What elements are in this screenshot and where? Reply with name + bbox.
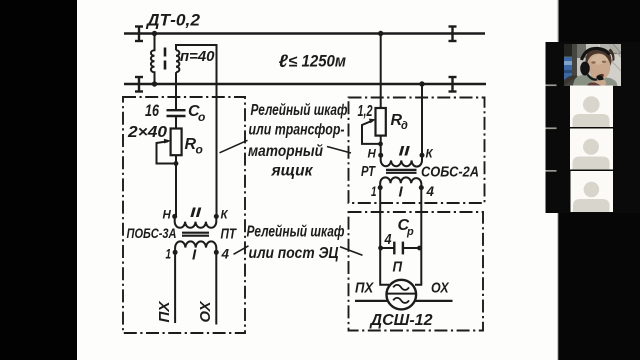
wire Rd bottom to H terminal: [380, 136, 382, 156]
motor relay DSSh-12 circle: [387, 280, 417, 310]
svg-text:ДТ-0,2: ДТ-0,2: [145, 11, 201, 30]
svg-text:о: о: [196, 143, 203, 157]
svg-text:1250м: 1250м: [302, 52, 347, 71]
wire motor to ОХ feeder: [416, 300, 453, 302]
svg-text:П: П: [393, 260, 403, 276]
node terminal 4 (RT): [419, 185, 424, 190]
transformer DT-0,2 core: [164, 48, 167, 70]
leader line to ПТ transformer: [234, 246, 249, 255]
transformer DT-0,2 primary winding: [151, 34, 155, 85]
svg-text:4: 4: [384, 231, 392, 248]
wire ОХ feeder (right): [215, 252, 217, 324]
node: Ro tap junction: [174, 161, 179, 166]
participant video (person with headset): [563, 44, 621, 86]
svg-text:ОХ: ОХ: [431, 279, 449, 296]
insulated joint (rail 1 right): [449, 27, 457, 42]
transformer SOBS-2A core: [386, 170, 417, 173]
svg-text:ПОБС-3А: ПОБС-3А: [127, 225, 177, 241]
annotation: Релейный шкаф или трансформаторный ящик: [248, 102, 348, 180]
node H (RT): [378, 153, 383, 158]
svg-text:ДСШ-12: ДСШ-12: [368, 312, 432, 329]
capacitor Cp: [394, 242, 403, 255]
node: rail 1 junction at DT primary: [152, 31, 157, 36]
node: rail 1 junction at Rd feeder: [378, 31, 383, 36]
participants panel background: [546, 42, 640, 213]
node: Cp left junction: [378, 246, 383, 251]
node terminal 1 (POBS): [173, 250, 178, 255]
svg-text:К: К: [221, 210, 229, 222]
wire Cp left: [381, 247, 395, 249]
wire RT terminal 4 down to motor: [415, 188, 421, 285]
relay cabinet box (right lower, dash-dot): [349, 212, 484, 331]
leader line to right box: [327, 147, 351, 154]
insulated joint (rail 1 left): [135, 27, 143, 42]
capacitor Co: [167, 110, 186, 116]
resistor Ro: [171, 129, 182, 156]
right sidebar background: [558, 0, 640, 360]
rail 2 (lower rail line): [124, 83, 486, 86]
wire RT terminal 1 down to motor: [380, 188, 389, 285]
svg-text:или трансфор-: или трансфор-: [249, 122, 345, 139]
annotation: Релейный шкаф или пост ЭЦ: [247, 223, 345, 262]
svg-text:маторный: маторный: [248, 143, 323, 160]
svg-text:≤: ≤: [289, 54, 298, 71]
Ro adjustment tap wire with arrow: [157, 141, 177, 163]
node: rail 2 junction at DT primary: [152, 81, 157, 86]
svg-text:2×40: 2×40: [127, 124, 167, 141]
participant placeholder 2: [570, 129, 613, 170]
svg-text:4: 4: [426, 184, 435, 199]
relay/transformer cabinet box (left, dash-dot): [123, 97, 245, 333]
transformer POBS-3A winding I: [175, 241, 216, 252]
node: Rd tap junction: [378, 142, 383, 147]
node terminal 4 (POBS): [214, 250, 219, 255]
motor chord line: [387, 293, 416, 295]
svg-text:ОХ: ОХ: [197, 301, 214, 323]
transformer POBS-3A core: [182, 233, 209, 236]
wire Ro bottom to H terminal: [175, 155, 177, 216]
node K (RT): [420, 153, 425, 158]
transformer POBS-3A winding II: [175, 216, 217, 227]
svg-text:ПТ: ПТ: [221, 227, 237, 243]
svg-text:1,2: 1,2: [358, 103, 373, 120]
wire rail 1 to Rd: [380, 34, 382, 109]
transformer SOBS-2A winding I: [380, 177, 421, 187]
insulated joint (rail 2 right): [449, 77, 457, 92]
wire rail 2 to K terminal (RT): [421, 84, 423, 155]
svg-text:РТ: РТ: [361, 164, 376, 180]
node: rail 2 junction at K feeder: [419, 81, 424, 86]
svg-text:Релейный шкаф: Релейный шкаф: [247, 223, 345, 240]
wire ПХ feeder (left): [174, 252, 176, 323]
rail 1 (upper rail line): [124, 32, 485, 35]
svg-text:Релейный шкаф: Релейный шкаф: [251, 102, 348, 119]
svg-text:ℓ: ℓ: [279, 51, 289, 71]
resistor Rd: [376, 108, 386, 136]
wire Co to Ro: [175, 116, 177, 129]
svg-text:4: 4: [221, 247, 230, 262]
participant placeholder 3: [571, 171, 614, 212]
node: Cp right junction: [417, 246, 422, 251]
transformer SOBS-2A winding II: [381, 155, 422, 166]
transformer DT-0,2 secondary winding: [176, 50, 179, 72]
svg-text:Н: Н: [368, 149, 377, 161]
left black bar: [0, 0, 77, 360]
svg-text:1: 1: [166, 247, 172, 262]
sidebar seam: [557, 0, 559, 42]
participant placeholder 1: [570, 86, 613, 128]
node terminal 1 (RT): [378, 185, 383, 190]
insulated joint (rail 2 left): [135, 77, 143, 92]
svg-text:II: II: [190, 204, 203, 220]
motor winding symbol ~ (top): [393, 285, 409, 290]
svg-text:СОБС-2А: СОБС-2А: [421, 165, 479, 181]
wire: DT secondary bottom down to capacitor Co: [175, 72, 177, 110]
svg-text:д: д: [401, 120, 408, 132]
svg-text:Н: Н: [163, 210, 172, 222]
svg-text:п=40: п=40: [180, 48, 215, 65]
svg-text:о: о: [198, 110, 205, 124]
svg-text:р: р: [406, 226, 414, 238]
svg-text:ПХ: ПХ: [156, 300, 173, 322]
motor winding symbol ~ (bottom): [393, 298, 409, 303]
svg-text:ящик: ящик: [271, 163, 314, 180]
node K (POBS): [214, 214, 219, 219]
leader line to DSSh box: [340, 247, 363, 256]
leader line to left box: [220, 140, 248, 153]
svg-text:16: 16: [145, 101, 159, 120]
svg-text:К: К: [426, 149, 434, 161]
svg-text:ПХ: ПХ: [355, 279, 374, 296]
wire: DT secondary top to K terminal of POBS (loop over п=40): [176, 45, 217, 216]
Rd adjustment tap wire with arrow: [362, 120, 381, 143]
relay cabinet box (right upper, dash-dot): [349, 98, 485, 204]
svg-text:II: II: [399, 143, 412, 159]
svg-text:или пост ЭЦ: или пост ЭЦ: [249, 245, 339, 262]
svg-text:1: 1: [371, 184, 377, 199]
wire Cp right: [403, 247, 420, 249]
node H (POBS): [172, 214, 177, 219]
wire ПХ feeder to motor: [355, 300, 387, 302]
